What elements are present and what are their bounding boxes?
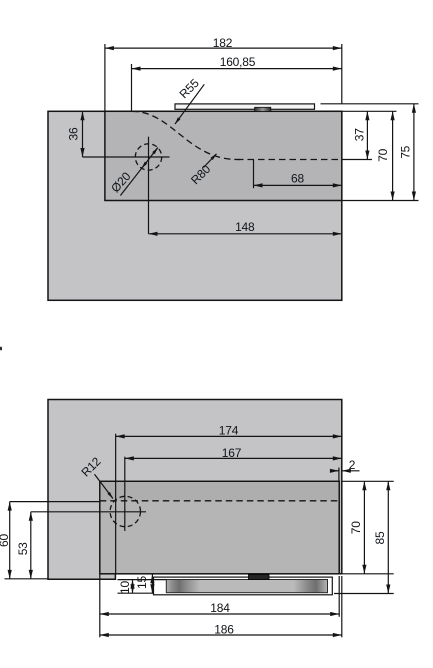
svg-text:148: 148 [235,220,255,234]
dimension 36 [67,111,83,157]
svg-text:167: 167 [222,446,242,460]
hidden contour horizontal line to right edge [237,159,342,161]
svg-text:R55: R55 [177,76,202,101]
blade slot tray (front view) [154,577,333,595]
dimension 53 [16,512,31,579]
svg-text:60: 60 [0,534,11,547]
svg-text:36: 36 [67,127,81,140]
extension line at hidden edge level (left) [10,501,100,503]
workpiece (front view) [100,481,339,574]
workpiece darker top band [101,482,339,500]
dimension 184 [100,575,339,638]
svg-text:182: 182 [213,36,233,50]
dimension 186 [100,576,342,637]
dimension 60 [0,502,48,579]
svg-text:174: 174 [219,423,239,437]
svg-text:37: 37 [352,128,366,141]
radius label R80 with leader [188,154,216,187]
diameter leader Ø20 [108,148,158,196]
svg-text:10: 10 [118,581,132,594]
dimension 70 (front view) [342,481,394,574]
svg-text:85: 85 [373,531,387,544]
svg-text:75: 75 [399,145,413,158]
machine table (top view) [48,111,342,300]
dimension 37 [343,111,397,159]
dimension 10 [118,580,167,594]
dimension 15 [135,574,152,593]
radius label R55 with leader [175,76,204,124]
hidden contour S-curve R55/R80 [132,111,240,159]
svg-text:70: 70 [376,148,390,161]
extension line 167 / circle vertical centerline [124,457,126,531]
hole Ø20 (dashed circle) [135,144,161,170]
hole centerline horizontal [83,156,170,158]
svg-text:68: 68 [291,171,304,185]
dimension 174 [116,423,342,437]
svg-text:53: 53 [16,542,30,555]
svg-text:160,85: 160,85 [220,55,256,69]
machine table (front view, stepped outline) [48,400,342,580]
R12 centerline horizontal [31,511,146,513]
edge artifact mark at left border [0,347,2,350]
saw blade bar (top view) [175,104,315,109]
dimension 2 [332,458,360,481]
hidden edge dashed line (front view) [100,500,339,502]
dimension 160,85 [132,55,342,111]
workpiece plate (top view) [105,111,342,200]
dimension 148 [149,220,342,234]
svg-text:2: 2 [349,458,356,472]
slot insert bar with gradient [166,580,327,593]
dimension 75 [321,104,419,201]
svg-text:186: 186 [214,623,234,637]
dimension 167 [125,446,342,460]
svg-text:15: 15 [135,576,149,589]
dimension 182 [105,36,342,111]
blade mount tab (top view) [255,107,271,111]
radius label R12 with leader [78,454,112,498]
mount tab (front view) [249,574,270,579]
svg-text:184: 184 [210,601,230,615]
extension line 174 [115,434,117,574]
dimension 70 (top view) [343,111,419,200]
dimension 85 [334,481,394,593]
hole centerline vertical / extension to 148 dim [148,137,150,234]
dimension 68 [254,160,342,189]
svg-text:70: 70 [349,521,363,534]
R12 dashed circle [110,496,140,526]
